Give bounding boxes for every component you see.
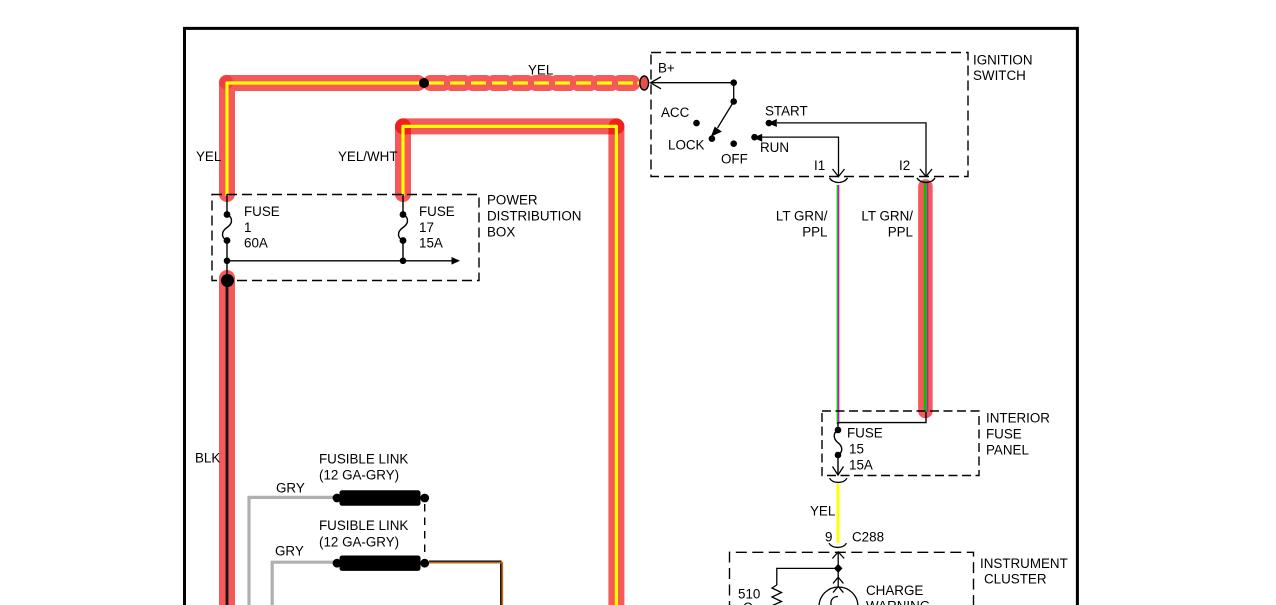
- svg-text:FUSE: FUSE: [419, 204, 455, 219]
- label CHARGE WARNING: [866, 583, 930, 605]
- label BLK: [195, 451, 220, 466]
- resistor 510 ohm (zigzag, cut off): [772, 585, 782, 605]
- svg-text:CLUSTER: CLUSTER: [984, 572, 1047, 587]
- charge warning indicator lamp (circle, cut off): [819, 587, 858, 605]
- label RUN: [760, 140, 789, 155]
- label LT GRN/PPL (I1 wire): [776, 209, 828, 240]
- wire highlight: YEL corner run (vertical + horizontal): [227, 83, 418, 194]
- svg-text:YEL: YEL: [196, 149, 221, 164]
- svg-text:C288: C288: [852, 530, 884, 545]
- svg-text:FUSE: FUSE: [244, 204, 280, 219]
- svg-text:PANEL: PANEL: [986, 443, 1029, 458]
- switch position contacts ACC LOCK OFF RUN START: [693, 120, 772, 147]
- svg-text:CHARGE: CHARGE: [866, 583, 923, 598]
- wire START contact to I2: [768, 119, 932, 177]
- instrument cluster box (dashed): [730, 552, 974, 605]
- svg-text:SWITCH: SWITCH: [973, 68, 1026, 83]
- wire highlight: BLK vertical below power distribution box: [219, 278, 235, 605]
- wire B+ feed inside switch: [651, 82, 734, 84]
- fusible link FL1: [333, 490, 430, 505]
- svg-text:RUN: RUN: [760, 140, 789, 155]
- label POWER DISTRIBUTION BOX: [487, 193, 581, 240]
- label FUSIBLE LINK (12 GA-GRY) upper: [319, 452, 408, 483]
- svg-text:PPL: PPL: [888, 225, 913, 240]
- svg-text:FUSIBLE LINK: FUSIBLE LINK: [319, 518, 408, 533]
- svg-text:PPL: PPL: [802, 225, 827, 240]
- svg-text:(12 GA-GRY): (12 GA-GRY): [319, 468, 399, 483]
- junction node on YEL wire: [419, 78, 429, 88]
- wire highlight: YEL/WHT long vertical to bottom: [608, 126, 624, 605]
- wire link from I2 wire into fuse 15: [838, 412, 926, 430]
- svg-text:INTERIOR: INTERIOR: [986, 411, 1050, 426]
- svg-text:WARNING: WARNING: [866, 599, 930, 605]
- svg-text:POWER: POWER: [487, 193, 538, 208]
- wire highlight: darker blotch at YEL corner: [219, 75, 233, 89]
- wire YEL/WHT (yellow core L-run down page): [403, 126, 616, 605]
- svg-text:YEL: YEL: [528, 63, 553, 78]
- svg-text:17: 17: [419, 220, 434, 235]
- label GRY lower: [275, 544, 304, 559]
- svg-text:B+: B+: [658, 61, 675, 76]
- ignition switch box (dashed): [651, 53, 968, 177]
- label YEL/WHT: [338, 149, 398, 164]
- label ACC: [661, 105, 690, 120]
- fuse F15 element (FUSE 15 15A): [833, 427, 844, 475]
- label GRY upper: [276, 481, 305, 496]
- svg-text:ACC: ACC: [661, 105, 690, 120]
- wire branch to 510 ohm resistor: [777, 568, 838, 585]
- wire highlight: YEL/WHT horizontal: [403, 118, 616, 134]
- label OFF: [721, 152, 748, 167]
- power distribution box (dashed): [212, 195, 479, 281]
- svg-text:GRY: GRY: [276, 481, 305, 496]
- fuse F17 element (FUSE 17 15A): [398, 211, 407, 261]
- svg-text:FUSIBLE LINK: FUSIBLE LINK: [319, 452, 408, 467]
- label FUSE 17 15A: [419, 204, 455, 251]
- svg-text:BLK: BLK: [195, 451, 220, 466]
- label I2: [899, 158, 910, 173]
- open arrowhead into B+: [651, 77, 662, 89]
- svg-text:15: 15: [849, 442, 864, 457]
- label IGNITION SWITCH: [973, 53, 1033, 84]
- lamp filament coil (cut off): [831, 597, 839, 605]
- wire highlight: YEL/WHT vertical drop to fuse 17: [395, 126, 411, 194]
- svg-text:15A: 15A: [849, 458, 873, 473]
- wire YEL dashed core to B+: [429, 81, 641, 84]
- wire GRY to fusible link 1: [249, 497, 337, 605]
- wire entering instrument cluster (up arrow): [832, 552, 844, 587]
- wire LT GRN/PPL from I2 (green+purple core over highlight): [925, 181, 927, 412]
- connector C288 pin 9: [829, 543, 847, 547]
- label FUSIBLE LINK (12 GA-GRY) lower: [319, 518, 408, 550]
- label INSTRUMENT CLUSTER: [980, 556, 1068, 587]
- svg-text:YEL: YEL: [810, 504, 835, 519]
- label YEL (left wire): [196, 149, 221, 164]
- label INTERIOR FUSE PANEL: [986, 411, 1050, 458]
- wire BLK core below power distribution box: [226, 280, 229, 605]
- label START: [765, 104, 808, 119]
- svg-text:LT GRN/: LT GRN/: [776, 209, 828, 224]
- svg-text:FUSE: FUSE: [847, 426, 883, 441]
- svg-text:15A: 15A: [419, 236, 443, 251]
- svg-text:I2: I2: [899, 158, 910, 173]
- connector below interior fuse panel: [830, 478, 848, 482]
- dashed tie between fusible links: [424, 504, 426, 556]
- bus wire with arrow inside power distribution box: [224, 257, 460, 265]
- svg-text:IGNITION: IGNITION: [973, 53, 1033, 68]
- wire LT GRN/PPL from I1 (green+purple core): [837, 185, 838, 424]
- wire ORG with black tracer from fusible link 2: [429, 561, 502, 605]
- fuse F17 lead from YEL/WHT wire: [402, 194, 404, 215]
- label FUSE 1 60A: [244, 204, 280, 251]
- svg-text:FUSE: FUSE: [986, 427, 1022, 442]
- fuse F1 element (FUSE 1 60A): [222, 211, 231, 278]
- wire highlight: LT GRN/PPL from ignition I2 to interior fuse panel: [918, 187, 933, 412]
- label LT GRN/PPL (I2 wire): [861, 209, 913, 240]
- connector I1 (socket arc): [830, 178, 848, 183]
- arrowhead above charge warning lamp: [833, 577, 843, 583]
- label LOCK: [668, 138, 705, 153]
- wire YEL from interior fuse panel to C288: [837, 484, 840, 543]
- arrowhead inside lamp: [833, 586, 843, 592]
- fusible link FL2: [333, 556, 430, 571]
- svg-text:(12 GA-GRY): (12 GA-GRY): [319, 535, 399, 550]
- svg-text:OFF: OFF: [721, 152, 748, 167]
- connector I2 (socket arc): [917, 178, 935, 183]
- fuse F1 lead from YEL wire: [226, 194, 228, 215]
- node: diamond junction in cluster: [834, 564, 843, 573]
- switch pivot stem: [730, 79, 737, 104]
- label YEL (top dashed wire): [528, 63, 553, 78]
- label B+: [658, 61, 675, 76]
- svg-text:Ω: Ω: [743, 600, 753, 605]
- wire YEL (yellow core, corner run): [227, 83, 420, 196]
- svg-text:1: 1: [244, 220, 251, 235]
- wire highlight: YEL dashed run to ignition switch B+: [431, 75, 640, 91]
- svg-text:START: START: [765, 104, 808, 119]
- switch lever pointing to LOCK: [711, 102, 734, 137]
- label 9 C288: [825, 530, 884, 545]
- svg-text:YEL/WHT: YEL/WHT: [338, 149, 398, 164]
- interior fuse panel box (dashed): [822, 411, 979, 476]
- label FUSE 15 15A: [847, 426, 883, 473]
- svg-text:DISTRIBUTION: DISTRIBUTION: [487, 209, 581, 224]
- svg-text:I1: I1: [814, 158, 825, 173]
- svg-text:9: 9: [825, 530, 832, 545]
- svg-text:LT GRN/: LT GRN/: [861, 209, 913, 224]
- svg-text:INSTRUMENT: INSTRUMENT: [980, 556, 1068, 571]
- label 510 ohm: [738, 587, 760, 605]
- connector ellipse at B+ terminal: [640, 76, 649, 90]
- svg-text:GRY: GRY: [275, 544, 304, 559]
- wire RUN contact to I1: [753, 134, 844, 177]
- border frame: [185, 28, 1078, 605]
- svg-text:BOX: BOX: [487, 225, 515, 240]
- node: big junction on box edge (BLK splice): [221, 274, 234, 287]
- wire GRY to fusible link 2: [272, 562, 337, 605]
- label I1: [814, 158, 825, 173]
- svg-text:60A: 60A: [244, 236, 268, 251]
- svg-text:LOCK: LOCK: [668, 138, 705, 153]
- label YEL (fuse panel output): [810, 504, 835, 519]
